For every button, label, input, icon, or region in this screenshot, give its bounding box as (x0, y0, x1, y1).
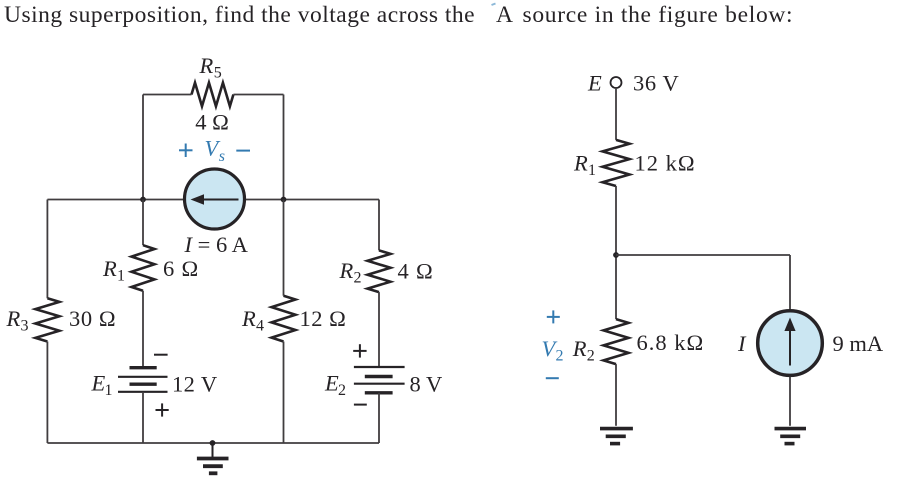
E1 reference label (91, 371, 113, 400)
node: junction to current source branch (613, 252, 619, 258)
wire: right branch, rail corner down to R2 (378, 200, 380, 251)
ground (197, 443, 229, 473)
svg-text:2: 2 (338, 382, 346, 399)
svg-text:3: 3 (21, 318, 29, 335)
battery E2 (354, 367, 405, 393)
svg-text:R: R (241, 306, 256, 331)
resistor R5 (192, 83, 234, 107)
svg-text:5: 5 (214, 65, 222, 82)
R3 reference label (6, 306, 29, 335)
svg-text:6.8 kΩ: 6.8 kΩ (637, 330, 705, 355)
wire: right branch, E2 to bottom rail (378, 393, 380, 443)
wire: top rail of R5 loop, left segment (143, 94, 192, 96)
wire: R5 right leg down to main rail (283, 95, 285, 200)
svg-text:R: R (572, 336, 587, 361)
Vs polarity minus sign (236, 150, 250, 152)
svg-text:36 V: 36 V (633, 71, 679, 96)
wire: R4 branch, rail to R4 (283, 200, 285, 296)
svg-text:R: R (102, 256, 117, 281)
wire: R2 to ground (615, 364, 617, 426)
svg-text:R: R (6, 306, 21, 331)
svg-text:R: R (199, 53, 214, 78)
battery E2 minus polarity sign (354, 404, 367, 406)
wire: top rail of R5 loop, right segment (233, 94, 283, 96)
wire: R4 branch, R4 to bottom rail (283, 342, 285, 444)
battery E1 minus polarity sign (154, 354, 168, 356)
svg-text:E: E (324, 371, 339, 396)
svg-text:1: 1 (588, 162, 596, 179)
resistor R1 (right circuit) (603, 140, 630, 186)
battery E1 (118, 368, 168, 392)
battery E2 plus polarity sign (353, 344, 366, 357)
node: ground junction on bottom rail (210, 440, 216, 446)
wire: bottom rail (47, 442, 379, 444)
wire: right branch, R2 to battery E2 (378, 292, 380, 367)
wire: down to current source (789, 255, 791, 310)
V2 label (542, 336, 564, 365)
svg-text:I: I (737, 331, 747, 356)
svg-text:12 Ω: 12 Ω (300, 306, 347, 331)
svg-text:4: 4 (256, 318, 264, 335)
svg-text:2: 2 (587, 348, 595, 365)
svg-text:2: 2 (354, 270, 362, 287)
resistor R2 (right circuit) (604, 319, 629, 364)
svg-text:R: R (339, 258, 354, 283)
Vs label (205, 136, 226, 166)
wire: center branch, E1 to bottom rail (142, 392, 144, 443)
svg-text:2: 2 (556, 348, 564, 365)
node: junction of R5 right leg with main rail (281, 197, 287, 203)
wire: main horizontal rail (47, 199, 379, 201)
wire: left branch vertical, R3 to bottom rail (46, 342, 48, 444)
svg-text:E: E (587, 71, 602, 96)
R4 reference label (241, 306, 264, 335)
current source I (9 mA) (758, 311, 823, 376)
current source I (6 A) (185, 169, 245, 229)
wire: horizontal to current source branch (616, 254, 790, 256)
svg-text:I = 6 A: I = 6 A (184, 232, 249, 257)
supply terminal node E (611, 77, 622, 88)
E2 reference label (324, 371, 346, 400)
svg-text:s: s (219, 148, 225, 165)
wire: current source to ground (789, 377, 791, 426)
resistor R2 (368, 250, 391, 292)
wire: R5 left leg down to main rail (142, 95, 144, 200)
svg-text:Using superposition, find the: Using superposition, find the voltage ac… (4, 2, 793, 28)
svg-text:9 mA: 9 mA (833, 331, 884, 356)
wire: center branch, rail to R1 (142, 200, 144, 246)
svg-text:E: E (91, 371, 106, 396)
resistor R1 (132, 245, 155, 291)
V2 polarity plus sign (547, 310, 560, 323)
svg-text:8 V: 8 V (410, 372, 443, 397)
node: junction of R5 left leg with main rail (140, 197, 146, 203)
wire: terminal to R1 (615, 89, 617, 140)
wire: left branch vertical, rail to R3 (46, 200, 48, 299)
wire: center branch, R1 to battery E1 (142, 291, 144, 368)
resistor R4 (272, 296, 296, 342)
R2 reference label (339, 258, 362, 287)
svg-text:R: R (573, 151, 588, 176)
R1 reference label (right circuit) (573, 151, 596, 180)
R5 reference label (199, 53, 222, 82)
battery E1 plus polarity sign (156, 403, 169, 416)
svg-text:12 V: 12 V (172, 372, 218, 397)
V2 polarity minus sign (546, 377, 559, 379)
ground below current source (775, 429, 807, 444)
resistor R3 (35, 298, 59, 341)
R2 reference label (right circuit) (572, 336, 595, 365)
svg-text:12 kΩ: 12 kΩ (635, 151, 696, 176)
svg-text:30 Ω: 30 Ω (69, 306, 116, 331)
svg-text:6 Ω: 6 Ω (163, 256, 199, 281)
svg-text:4 Ω: 4 Ω (195, 110, 229, 135)
wire: R1 down through node to R2 (615, 186, 617, 319)
Vs polarity plus sign (179, 144, 193, 158)
ground below R2 (600, 429, 633, 444)
svg-text:1: 1 (117, 268, 125, 285)
svg-text:4 Ω: 4 Ω (398, 259, 434, 284)
svg-text:1: 1 (105, 382, 113, 399)
R1 reference label (102, 256, 125, 285)
